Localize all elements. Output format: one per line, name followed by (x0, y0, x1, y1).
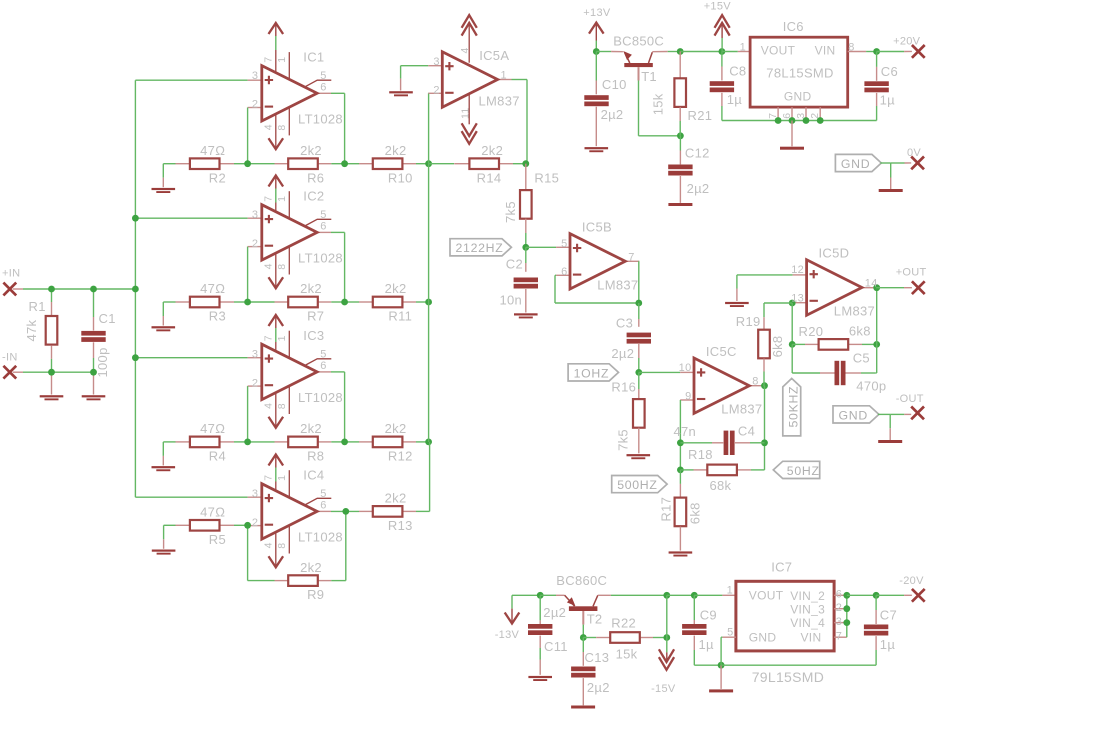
svg-text:12: 12 (791, 264, 804, 276)
svg-text:6k8: 6k8 (849, 323, 871, 338)
svg-text:1: 1 (276, 475, 288, 481)
svg-text:2: 2 (252, 517, 258, 529)
svg-text:6: 6 (320, 221, 326, 233)
svg-text:2µ2: 2µ2 (601, 107, 624, 122)
svg-text:500HZ: 500HZ (617, 478, 657, 492)
svg-text:R13: R13 (388, 518, 413, 533)
svg-text:+IN: +IN (2, 268, 20, 280)
svg-text:T2: T2 (587, 612, 603, 627)
svg-text:-OUT: -OUT (896, 393, 924, 405)
svg-text:78L15SMD: 78L15SMD (766, 66, 833, 81)
svg-text:7k5: 7k5 (615, 429, 630, 451)
svg-text:-20V: -20V (899, 575, 924, 587)
svg-text:VIN: VIN (815, 43, 836, 57)
svg-text:9: 9 (685, 391, 691, 403)
svg-text:R9: R9 (307, 587, 324, 602)
svg-text:2µ2: 2µ2 (587, 680, 610, 695)
svg-text:2k2: 2k2 (300, 560, 322, 575)
svg-text:R21: R21 (688, 108, 713, 123)
svg-text:2122HZ: 2122HZ (456, 241, 504, 255)
svg-text:GND: GND (784, 89, 812, 103)
svg-text:15k: 15k (616, 646, 638, 661)
svg-text:47Ω: 47Ω (200, 421, 225, 436)
svg-text:5: 5 (320, 488, 326, 500)
svg-text:7: 7 (263, 335, 275, 341)
svg-text:VOUT: VOUT (749, 589, 784, 603)
svg-text:LM837: LM837 (834, 304, 875, 319)
svg-text:6: 6 (836, 589, 842, 601)
svg-text:C9: C9 (700, 607, 717, 622)
svg-text:R20: R20 (799, 324, 824, 339)
svg-text:8: 8 (752, 376, 758, 388)
svg-text:100p: 100p (95, 347, 110, 377)
svg-text:LM837: LM837 (721, 402, 762, 417)
svg-text:2k2: 2k2 (481, 143, 503, 158)
svg-text:5: 5 (561, 238, 567, 250)
svg-text:R22: R22 (611, 616, 636, 631)
svg-text:1: 1 (727, 585, 733, 597)
svg-text:6: 6 (320, 360, 326, 372)
svg-text:6: 6 (561, 266, 567, 278)
svg-text:7: 7 (836, 630, 842, 642)
svg-text:GND: GND (749, 631, 777, 645)
svg-text:IC4: IC4 (303, 467, 324, 482)
svg-text:R18: R18 (688, 447, 713, 462)
svg-text:R7: R7 (307, 309, 324, 324)
svg-text:C8: C8 (729, 64, 746, 79)
svg-text:10n: 10n (500, 293, 523, 308)
svg-text:6: 6 (320, 82, 326, 94)
svg-text:47Ω: 47Ω (200, 505, 225, 520)
svg-text:C4: C4 (738, 424, 755, 439)
svg-text:4: 4 (459, 47, 471, 53)
svg-text:IC7: IC7 (771, 560, 792, 575)
svg-text:VIN_3: VIN_3 (790, 603, 825, 617)
svg-text:3: 3 (252, 209, 258, 221)
svg-text:2k2: 2k2 (300, 421, 322, 436)
svg-text:7k5: 7k5 (503, 201, 518, 223)
svg-text:2: 2 (433, 84, 439, 96)
svg-text:C2: C2 (506, 257, 523, 272)
svg-text:R5: R5 (209, 532, 226, 547)
svg-text:C5: C5 (853, 351, 870, 366)
svg-text:C3: C3 (616, 315, 633, 330)
svg-text:0V: 0V (907, 147, 921, 159)
svg-text:2µ2: 2µ2 (543, 605, 566, 620)
svg-text:2k2: 2k2 (385, 143, 407, 158)
svg-text:7: 7 (263, 475, 275, 481)
svg-text:R17: R17 (659, 497, 674, 522)
svg-text:VIN_2: VIN_2 (790, 589, 825, 603)
svg-text:4: 4 (263, 263, 275, 269)
svg-text:7: 7 (628, 251, 634, 263)
svg-text:8: 8 (276, 543, 288, 549)
svg-text:7: 7 (263, 196, 275, 202)
svg-text:2: 2 (836, 602, 842, 614)
svg-text:R15: R15 (534, 170, 559, 185)
svg-text:LT1028: LT1028 (298, 250, 343, 265)
svg-text:2k2: 2k2 (385, 421, 407, 436)
svg-text:R16: R16 (611, 379, 636, 394)
svg-text:VIN: VIN (801, 631, 822, 645)
svg-text:C6: C6 (881, 64, 898, 79)
svg-text:R8: R8 (307, 449, 324, 464)
svg-text:3: 3 (252, 488, 258, 500)
svg-text:8: 8 (276, 264, 288, 270)
svg-text:47k: 47k (24, 319, 39, 341)
svg-text:R19: R19 (736, 314, 761, 329)
svg-text:14: 14 (865, 278, 878, 290)
svg-text:10: 10 (679, 362, 692, 374)
svg-text:R1: R1 (29, 299, 46, 314)
svg-text:IC5B: IC5B (582, 219, 612, 234)
svg-text:50HZ: 50HZ (787, 464, 820, 478)
svg-text:C10: C10 (602, 77, 627, 92)
svg-text:13: 13 (791, 292, 804, 304)
svg-text:+13V: +13V (583, 7, 611, 19)
svg-text:47Ω: 47Ω (200, 281, 225, 296)
svg-text:2k2: 2k2 (385, 491, 407, 506)
svg-text:5: 5 (320, 70, 326, 82)
svg-text:R6: R6 (307, 170, 324, 185)
svg-text:C1: C1 (99, 311, 116, 326)
svg-text:3: 3 (252, 70, 258, 82)
svg-text:4: 4 (263, 124, 275, 130)
svg-text:LT1028: LT1028 (298, 390, 343, 405)
svg-text:2: 2 (252, 238, 258, 250)
svg-text:-13V: -13V (495, 629, 520, 641)
svg-text:2µ2: 2µ2 (687, 181, 710, 196)
svg-text:1µ: 1µ (880, 93, 896, 108)
svg-text:1: 1 (276, 196, 288, 202)
svg-text:2k2: 2k2 (300, 143, 322, 158)
svg-text:GND: GND (841, 157, 870, 171)
svg-text:IC3: IC3 (303, 328, 324, 343)
svg-text:50KHZ: 50KHZ (786, 386, 800, 428)
svg-text:4: 4 (263, 403, 275, 409)
svg-text:1µ: 1µ (880, 637, 896, 652)
svg-text:BC860C: BC860C (556, 573, 607, 588)
svg-text:IC1: IC1 (303, 49, 324, 64)
svg-text:2k2: 2k2 (300, 281, 322, 296)
svg-text:GND: GND (839, 408, 868, 422)
svg-text:R12: R12 (388, 449, 413, 464)
svg-text:2µ2: 2µ2 (611, 346, 634, 361)
svg-text:11: 11 (459, 108, 471, 120)
svg-text:15k: 15k (651, 93, 666, 115)
svg-text:-15V: -15V (651, 683, 676, 695)
svg-text:IC5D: IC5D (819, 246, 850, 261)
svg-text:4: 4 (263, 542, 275, 548)
svg-text:470p: 470p (856, 378, 886, 393)
svg-text:1µ: 1µ (727, 92, 743, 107)
svg-text:+20V: +20V (893, 36, 921, 48)
svg-text:R14: R14 (477, 170, 502, 185)
svg-text:2: 2 (252, 377, 258, 389)
svg-text:2k2: 2k2 (385, 281, 407, 296)
svg-text:IC5A: IC5A (479, 48, 509, 63)
svg-text:+15V: +15V (704, 0, 732, 12)
svg-text:7: 7 (263, 56, 275, 62)
svg-text:C13: C13 (585, 650, 610, 665)
svg-text:8: 8 (276, 124, 288, 130)
svg-text:C11: C11 (544, 639, 568, 654)
svg-text:1OHZ: 1OHZ (574, 366, 610, 380)
svg-text:1: 1 (740, 42, 746, 54)
svg-text:R3: R3 (209, 309, 226, 324)
svg-text:LM837: LM837 (479, 93, 520, 108)
svg-text:C7: C7 (880, 608, 897, 623)
svg-text:6k8: 6k8 (687, 502, 702, 524)
svg-text:R10: R10 (388, 170, 413, 185)
svg-text:IC6: IC6 (783, 19, 804, 34)
svg-text:47n: 47n (674, 424, 697, 439)
svg-text:VIN_4: VIN_4 (790, 616, 825, 630)
svg-text:1: 1 (276, 335, 288, 341)
svg-text:2: 2 (252, 99, 258, 111)
svg-text:6k8: 6k8 (770, 336, 785, 358)
svg-text:LM837: LM837 (597, 277, 638, 292)
svg-text:5: 5 (320, 348, 326, 360)
svg-text:LT1028: LT1028 (298, 529, 343, 544)
svg-text:79L15SMD: 79L15SMD (752, 669, 824, 685)
svg-text:T1: T1 (641, 69, 657, 84)
svg-text:1: 1 (276, 57, 288, 63)
svg-text:68k: 68k (710, 478, 732, 493)
svg-text:8: 8 (276, 403, 288, 409)
svg-text:C12: C12 (685, 146, 710, 161)
svg-text:+OUT: +OUT (896, 266, 927, 278)
svg-text:BC850C: BC850C (613, 34, 664, 49)
svg-text:R11: R11 (388, 309, 412, 324)
svg-text:IC2: IC2 (303, 188, 324, 203)
svg-text:3: 3 (252, 349, 258, 361)
svg-text:IC5C: IC5C (706, 344, 737, 359)
svg-text:1µ: 1µ (699, 637, 715, 652)
svg-text:R4: R4 (209, 449, 226, 464)
svg-text:3: 3 (836, 616, 842, 628)
svg-text:5: 5 (320, 209, 326, 221)
svg-text:VOUT: VOUT (761, 43, 796, 57)
svg-text:LT1028: LT1028 (298, 111, 343, 126)
svg-text:47Ω: 47Ω (200, 143, 225, 158)
svg-text:-IN: -IN (2, 351, 18, 363)
svg-text:1: 1 (501, 70, 507, 82)
svg-text:R2: R2 (209, 170, 226, 185)
svg-text:3: 3 (433, 56, 439, 68)
svg-text:6: 6 (320, 500, 326, 512)
